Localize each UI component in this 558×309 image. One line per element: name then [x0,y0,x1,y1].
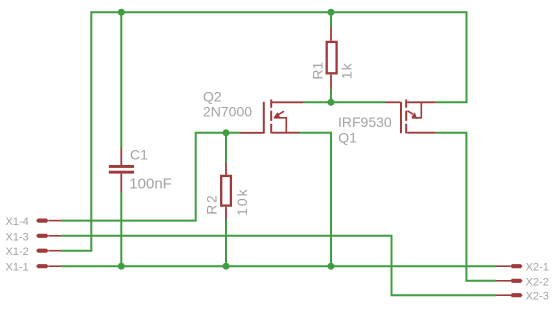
svg-text:1k: 1k [339,62,355,79]
svg-text:X2-1: X2-1 [526,262,549,274]
svg-text:10k: 10k [234,187,250,216]
svg-text:X1-4: X1-4 [6,216,29,228]
svg-text:IRF9530: IRF9530 [338,114,392,130]
svg-text:R2: R2 [203,194,219,215]
svg-text:X1-3: X1-3 [6,231,29,243]
svg-text:Q1: Q1 [338,129,357,145]
svg-text:C1: C1 [130,146,148,162]
svg-text:X2-2: X2-2 [526,276,549,288]
svg-text:X1-2: X1-2 [6,246,29,258]
svg-text:2N7000: 2N7000 [203,103,252,119]
svg-text:Q2: Q2 [203,88,222,104]
svg-text:X1-1: X1-1 [6,262,29,274]
svg-text:X2-3: X2-3 [526,291,549,303]
svg-text:100nF: 100nF [129,176,172,193]
svg-text:R1: R1 [309,61,325,79]
